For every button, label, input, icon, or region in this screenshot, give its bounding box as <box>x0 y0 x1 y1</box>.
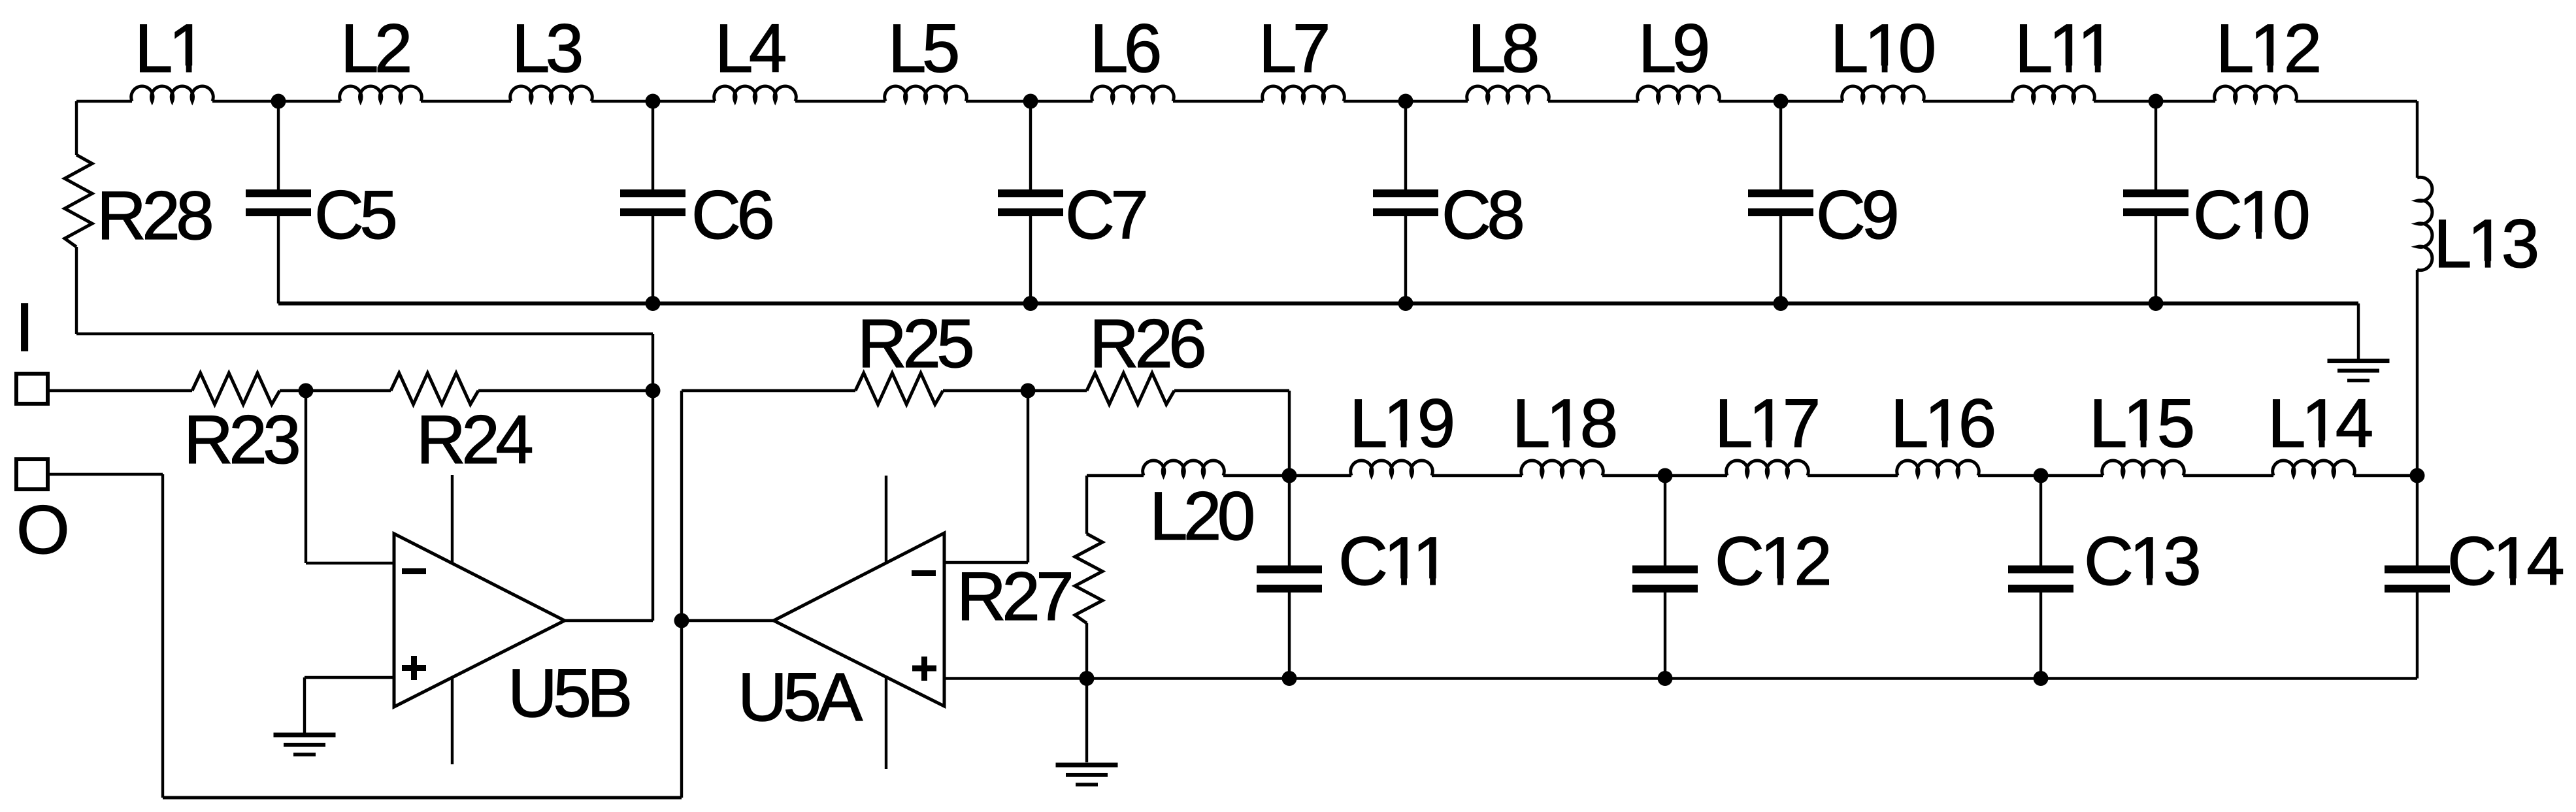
resistor R25 <box>855 373 943 404</box>
svg-text:C5: C5 <box>314 177 395 253</box>
wire <box>2183 474 2273 477</box>
svg-text:L5: L5 <box>888 10 957 87</box>
wire <box>1174 389 1289 392</box>
op-amp U5A <box>774 533 944 706</box>
svg-text:C12: C12 <box>1715 523 1829 600</box>
resistor R24 <box>391 373 478 404</box>
capacitor C8 <box>1404 101 1407 191</box>
wire <box>2354 474 2417 477</box>
inductor L10 <box>1842 86 1924 101</box>
wire <box>280 389 391 392</box>
svg-text:C13: C13 <box>2084 523 2198 600</box>
node <box>299 383 314 398</box>
wire <box>2296 100 2417 103</box>
svg-text:L12: L12 <box>2216 10 2319 87</box>
capacitor C10 <box>2155 101 2157 191</box>
svg-text:C8: C8 <box>1442 177 1522 253</box>
wire lower bus of top ladder <box>278 302 2358 306</box>
capacitor C11 <box>1288 476 1291 567</box>
inductor L18 <box>1521 461 1604 476</box>
inductor L16 <box>1897 461 1979 476</box>
svg-text:L14: L14 <box>2268 385 2372 462</box>
terminal O <box>16 459 48 489</box>
svg-text:L19: L19 <box>1349 385 1453 462</box>
wire <box>1978 474 2103 477</box>
svg-text:L3: L3 <box>512 10 581 87</box>
svg-text:L17: L17 <box>1715 385 1818 462</box>
capacitor C6 <box>652 101 654 191</box>
wire top ladder horizontal segments <box>76 100 132 103</box>
wire <box>591 100 715 103</box>
wire <box>1808 474 1898 477</box>
wire <box>966 100 1093 103</box>
wire <box>1289 474 1351 477</box>
wire <box>1432 474 1522 477</box>
wire <box>2416 270 2419 476</box>
svg-text:L16: L16 <box>1891 385 1994 462</box>
svg-text:R28: R28 <box>97 178 211 254</box>
wire bottom bus <box>944 677 2417 679</box>
wire <box>1602 474 1727 477</box>
svg-text:L2: L2 <box>340 10 410 87</box>
svg-text:L4: L4 <box>715 10 785 87</box>
svg-text:L8: L8 <box>1468 10 1537 87</box>
ground <box>274 733 336 738</box>
inductor L9 <box>1638 86 1720 101</box>
svg-text:C10: C10 <box>2193 177 2308 253</box>
wire inverting input of U5A <box>944 561 1028 564</box>
svg-text:L6: L6 <box>1090 10 1159 87</box>
inductor L5 <box>885 86 967 101</box>
wire inverting input of U5B <box>305 391 307 563</box>
ground <box>2328 359 2390 363</box>
wire <box>680 391 683 621</box>
wire <box>478 389 653 392</box>
wire <box>212 100 340 103</box>
terminal I <box>16 374 48 404</box>
inductor L20 <box>1143 461 1225 476</box>
svg-text:C11: C11 <box>1338 523 1447 600</box>
op-amp U5B power pin <box>451 475 454 764</box>
node dots bottom bus <box>1080 671 1095 686</box>
capacitor C14 <box>2416 476 2419 567</box>
svg-text:R23: R23 <box>184 402 298 478</box>
inductor L4 <box>714 86 797 101</box>
svg-text:L1: L1 <box>135 10 204 87</box>
svg-text:C7: C7 <box>1065 177 1146 253</box>
svg-text:U5A: U5A <box>738 659 863 736</box>
svg-text:C6: C6 <box>691 177 772 253</box>
wire <box>1085 476 1088 534</box>
svg-text:O: O <box>16 492 67 568</box>
capacitor C9 <box>1779 101 1782 191</box>
wire <box>682 619 774 622</box>
svg-text:L18: L18 <box>1512 385 1615 462</box>
svg-text:R24: R24 <box>416 402 532 478</box>
wire <box>1923 100 2013 103</box>
wire <box>421 100 511 103</box>
op-amp U5A power pin <box>885 476 887 769</box>
inductor L8 <box>1467 86 1549 101</box>
inductor L13 <box>2417 177 2432 270</box>
svg-text:L15: L15 <box>2089 385 2192 462</box>
wire <box>1087 474 1144 477</box>
svg-text:R26: R26 <box>1089 306 1204 382</box>
wire U5B output to feedback node <box>565 619 653 622</box>
wire <box>1085 679 1088 763</box>
capacitor C5 <box>277 101 280 191</box>
wire <box>1223 474 1289 477</box>
node dots on top wire <box>271 94 286 109</box>
svg-text:L11: L11 <box>2015 10 2113 87</box>
ground <box>1056 763 1118 768</box>
svg-text:U5B: U5B <box>508 655 629 732</box>
svg-text:L9: L9 <box>1638 10 1708 87</box>
inductor L3 <box>510 86 593 101</box>
inductor L2 <box>340 86 422 101</box>
node dots on lower bus <box>646 296 661 311</box>
wire <box>1344 100 1468 103</box>
node <box>674 613 689 628</box>
wire <box>75 247 78 334</box>
svg-text:L20: L20 <box>1149 478 1253 555</box>
svg-text:C9: C9 <box>1816 177 1896 253</box>
svg-text:R27: R27 <box>957 559 1071 635</box>
resistor R28 <box>65 155 92 247</box>
wire <box>1719 100 1843 103</box>
wire <box>2357 304 2360 360</box>
capacitor C12 <box>1664 476 1666 567</box>
wire <box>75 101 78 155</box>
wire <box>48 389 192 392</box>
inductor L6 <box>1092 86 1174 101</box>
node dots bottom ladder top wire <box>1282 468 1297 483</box>
svg-text:L7: L7 <box>1259 10 1328 87</box>
svg-text:I: I <box>15 289 30 366</box>
wire non-inverting input of U5B <box>305 676 394 679</box>
inductor L14 <box>2273 461 2355 476</box>
inductor L7 <box>1263 86 1345 101</box>
wire <box>2094 100 2215 103</box>
wire <box>1085 623 1088 679</box>
inductor L11 <box>2013 86 2095 101</box>
capacitor C13 <box>2039 476 2042 567</box>
wire output loop to O terminal <box>48 473 163 476</box>
op-amp U5B <box>394 534 565 707</box>
inductor L19 <box>1351 461 1433 476</box>
resistor R23 <box>192 373 280 404</box>
svg-text:R25: R25 <box>857 306 972 382</box>
wire <box>1548 100 1638 103</box>
resistor R27 <box>1075 534 1102 623</box>
node <box>1021 383 1036 398</box>
svg-text:L10: L10 <box>1830 10 1934 87</box>
inductor L17 <box>1726 461 1809 476</box>
inductor L15 <box>2102 461 2185 476</box>
wire <box>2416 101 2419 178</box>
wire <box>1173 100 1263 103</box>
svg-text:L13: L13 <box>2434 206 2537 282</box>
resistor R26 <box>1087 373 1174 404</box>
wire <box>943 389 1087 392</box>
svg-text:C14: C14 <box>2447 523 2563 600</box>
capacitor C7 <box>1029 101 1032 191</box>
inductor L1 <box>131 86 214 101</box>
inductor L12 <box>2215 86 2297 101</box>
wire <box>795 100 885 103</box>
